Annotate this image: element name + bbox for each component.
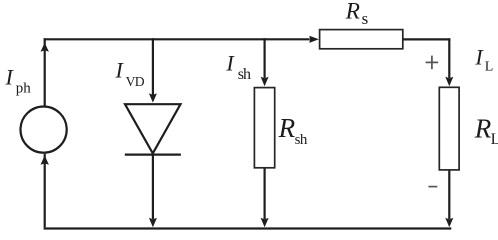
diode branch arrow down to bottom bus [149, 218, 157, 227]
svg-text:sh: sh [238, 66, 251, 83]
wire shunt branch upper [264, 38, 266, 78]
Iph arrow up below circle [41, 155, 49, 164]
wire Rs output to right corner [403, 38, 450, 40]
svg-text:R: R [345, 0, 360, 25]
resistor R_L box [439, 87, 459, 170]
wire right branch lower [448, 171, 450, 220]
wire diode branch lower [152, 155, 154, 219]
resistor R_s box [320, 30, 403, 49]
diode VD triangle [125, 104, 181, 153]
minus terminal [428, 186, 437, 188]
svg-text:L: L [491, 131, 498, 148]
wire shunt branch lower [264, 169, 266, 220]
wire top bus [44, 38, 310, 40]
shunt branch arrow down to bottom bus [261, 218, 269, 227]
I_sh arrow down into R_sh [261, 77, 269, 86]
resistor R_sh box [254, 88, 274, 168]
current source I_ph circle [20, 107, 66, 153]
Iph arrow up below top-left corner [41, 43, 49, 52]
svg-text:ph: ph [16, 81, 32, 97]
wire bottom bus [44, 227, 452, 229]
right branch arrow down to bottom bus [445, 218, 453, 227]
svg-text:L: L [485, 60, 494, 75]
plus terminal [426, 56, 439, 70]
I_L arrow down into R_L [445, 77, 453, 86]
svg-text:R: R [474, 114, 492, 144]
svg-text:s: s [362, 9, 369, 28]
diode VD cathode bar [125, 154, 181, 156]
svg-text:R: R [278, 113, 296, 143]
wire right branch upper [448, 38, 450, 78]
series current arrow right into R_s [309, 36, 319, 43]
svg-text:VD: VD [126, 74, 145, 89]
I_VD arrow down into diode [149, 93, 157, 102]
wire left branch upper [44, 38, 46, 105]
wire diode branch upper [152, 38, 154, 95]
svg-text:sh: sh [295, 132, 308, 148]
wire left branch lower [44, 154, 46, 228]
